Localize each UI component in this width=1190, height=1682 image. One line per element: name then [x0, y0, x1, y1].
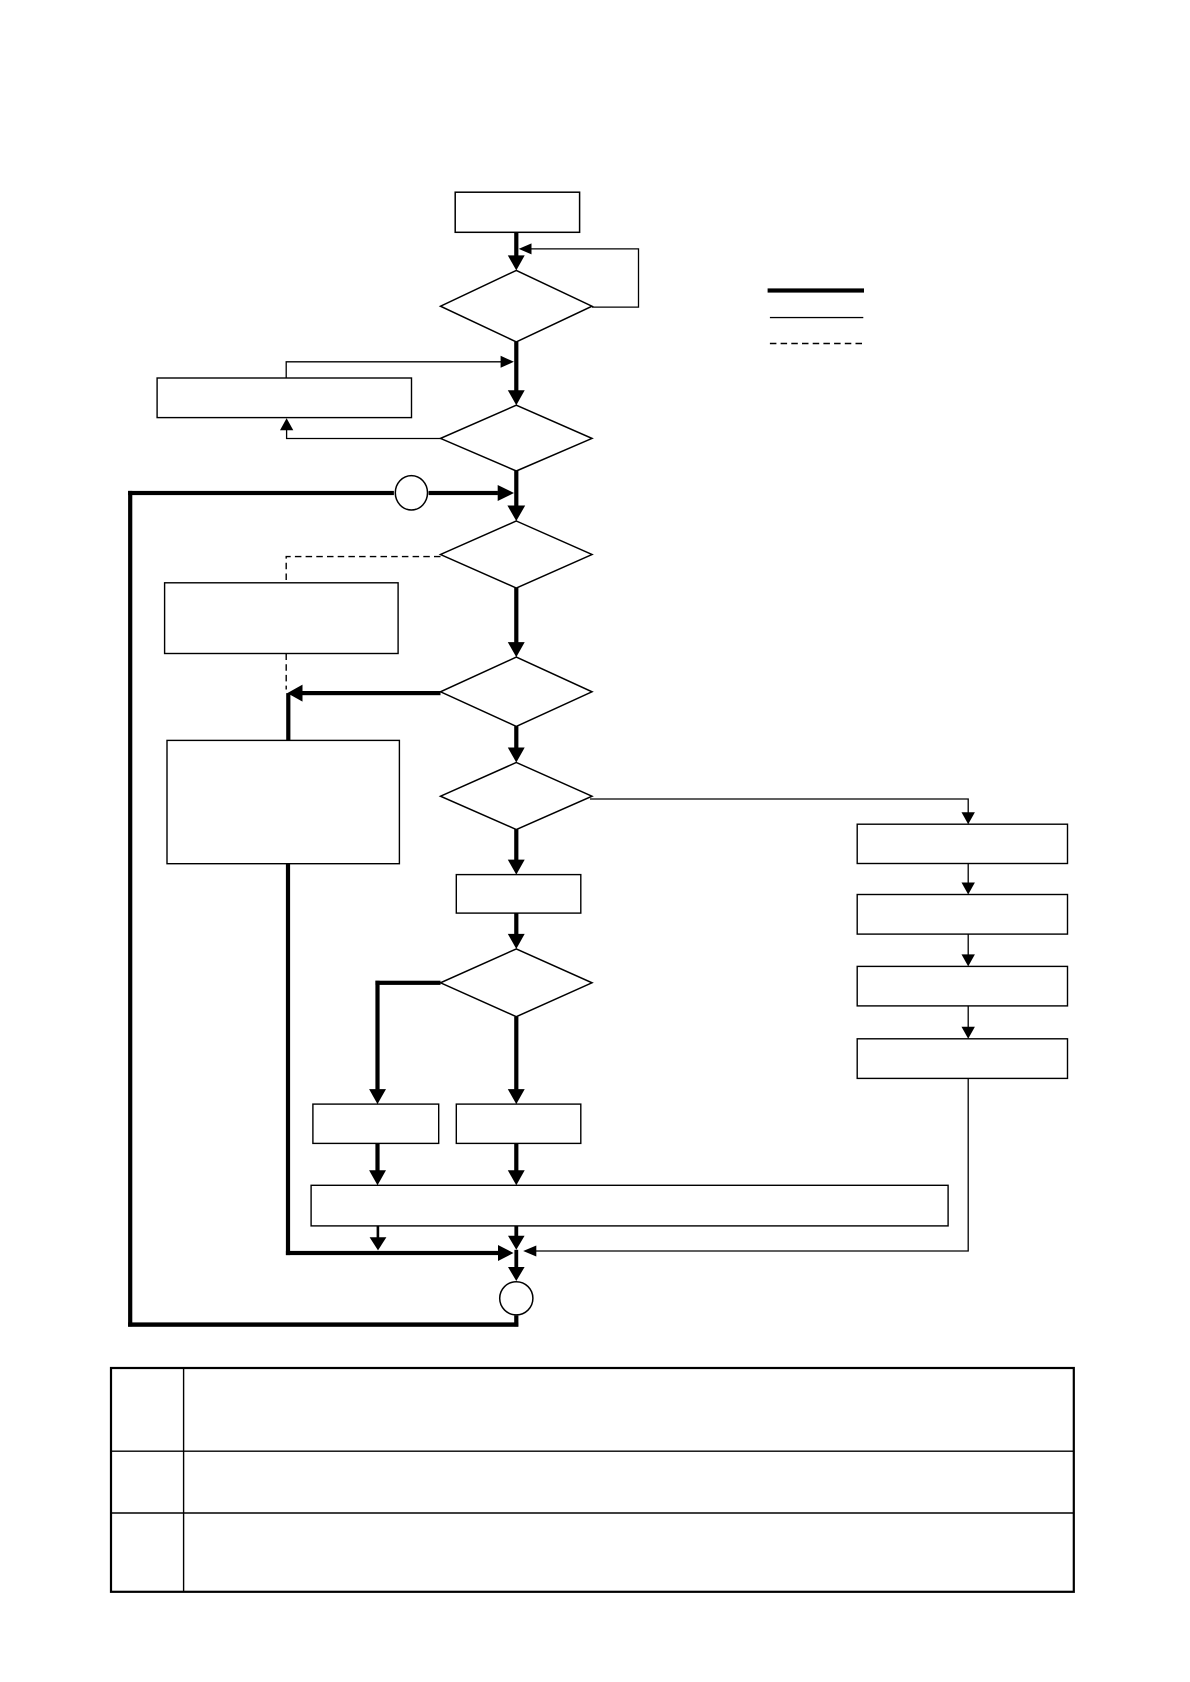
- table: row divider 1: [111, 1450, 1074, 1452]
- wire: B6 to D6 thick arrow: [508, 913, 525, 949]
- table: vertical divider: [183, 1368, 185, 1592]
- wire: B11 to B12 thin arrow: [962, 934, 975, 966]
- wire: B1 to D1 thick arrow: [508, 232, 525, 270]
- decision diamond D1: [441, 270, 593, 342]
- process box B12 (right stack 3): [857, 966, 1067, 1006]
- wire: D6 to B8 thick arrow: [508, 1017, 525, 1104]
- process box B10 (right stack 1): [857, 824, 1067, 863]
- node N2 connector circle (bottom): [500, 1282, 533, 1315]
- decision diamond D5: [441, 763, 593, 830]
- decision diamond D4: [441, 657, 593, 726]
- legend: dashed line sample: [770, 343, 862, 345]
- wire: D2 to D3 thick arrow through node N1: [507, 471, 525, 521]
- decision diamond D2: [441, 405, 593, 471]
- wire: big left return loop (thick) with entry arrow at node N1: [128, 485, 518, 1327]
- wire: B2 top to main line thin arrow: [286, 356, 514, 378]
- wire: D5 to B6 thick arrow: [508, 830, 525, 875]
- wire: B7 to B9 thick arrow: [369, 1143, 386, 1185]
- wire: B10 to B11 thin arrow: [962, 864, 975, 895]
- legend: thick line sample: [768, 288, 864, 292]
- wire: B13 bottom down and left to merge point (thin arrow): [523, 1078, 968, 1256]
- node N1 connector circle on return loop: [395, 476, 427, 510]
- legend: thin line sample: [770, 317, 863, 318]
- wire: D6 left branch down to B7 (thick arrow): [369, 981, 440, 1104]
- process box B4 (large left box): [167, 740, 399, 863]
- wire: merge point down to node N2 (thick arrow): [508, 1250, 525, 1281]
- process box B11 (right stack 2): [857, 895, 1067, 935]
- dashed wire: D3 left to box B3: [286, 557, 440, 583]
- process box B3 (dashed-linked box): [165, 583, 399, 654]
- wire: B8 to B9 thick arrow: [508, 1143, 525, 1185]
- process box B1 (start): [455, 192, 579, 232]
- dashed wire: B3 bottom to corner junction: [285, 654, 287, 690]
- wire: D2 left to B2 bottom thin arrow: [280, 418, 441, 438]
- process box B7: [313, 1104, 439, 1143]
- wire: B4 bottom down and right to merge point (thick): [286, 864, 514, 1261]
- process box B13 (right stack 4): [857, 1039, 1067, 1079]
- table: notes table outer border: [111, 1368, 1074, 1592]
- wire: D1 to D2 thick arrow: [508, 342, 525, 405]
- wire: D3 to D4 thick arrow: [508, 588, 525, 657]
- wire: D1 right feedback loop back to main line: [519, 243, 639, 307]
- wire: B9 bottom left arrow into return line (medium): [370, 1226, 387, 1251]
- process box B6: [456, 875, 581, 914]
- process box B9 (long bar): [311, 1185, 948, 1226]
- wire: D4 left thick arrow (left-pointing head) then down into B4: [286, 685, 440, 741]
- wire: B12 to B13 thin arrow: [962, 1006, 975, 1039]
- wire: D4 to D5 thick arrow: [508, 726, 525, 762]
- process box B8: [456, 1104, 581, 1143]
- table: row divider 2: [111, 1512, 1074, 1514]
- wire: D5 right branch to B10 (thin arrow): [590, 799, 975, 824]
- decision diamond D3: [441, 521, 593, 588]
- process box B2 (wait box, upper left): [157, 378, 411, 418]
- wire: B9 bottom centre arrow into merge point (thick): [508, 1226, 525, 1250]
- decision diamond D6: [441, 949, 593, 1017]
